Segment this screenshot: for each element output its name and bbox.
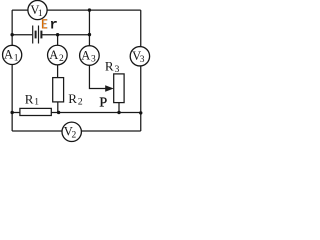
svg-text:2: 2 xyxy=(59,54,64,64)
svg-text:r: r xyxy=(50,18,58,33)
svg-text:1: 1 xyxy=(38,9,43,19)
svg-text:R: R xyxy=(105,59,114,74)
svg-text:R: R xyxy=(68,91,77,106)
svg-text:2: 2 xyxy=(78,96,83,107)
svg-text:1: 1 xyxy=(14,54,19,64)
svg-text:3: 3 xyxy=(91,54,96,64)
svg-text:P: P xyxy=(99,95,107,110)
svg-text:3: 3 xyxy=(140,55,145,65)
svg-text:R: R xyxy=(25,91,34,106)
svg-text:A: A xyxy=(81,48,90,62)
svg-text:A: A xyxy=(4,48,13,62)
svg-text:A: A xyxy=(49,48,58,62)
svg-text:3: 3 xyxy=(115,64,120,75)
svg-text:1: 1 xyxy=(34,98,39,108)
svg-text:2: 2 xyxy=(72,131,77,141)
